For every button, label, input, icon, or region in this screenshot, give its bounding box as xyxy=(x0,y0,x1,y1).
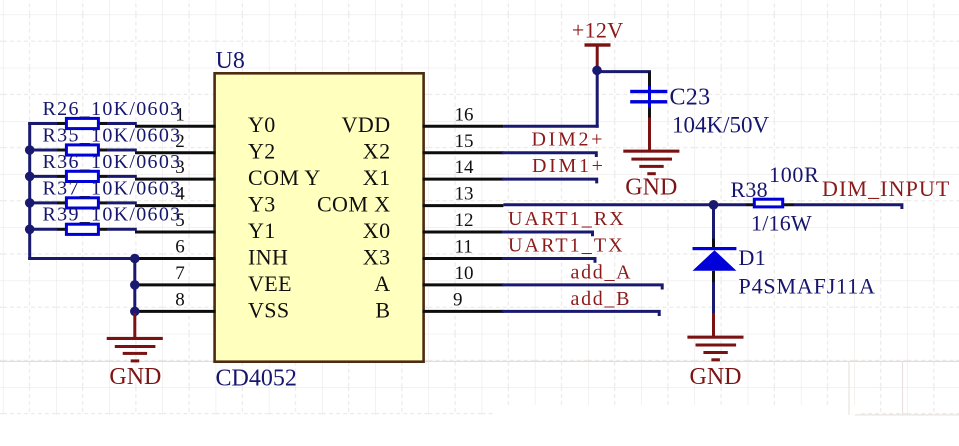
net label DIM_INPUT xyxy=(822,176,950,201)
svg-text:add_B: add_B xyxy=(571,288,632,310)
wire row3 left xyxy=(28,175,137,178)
net label DIM1+ xyxy=(532,155,606,177)
svg-text:B: B xyxy=(375,297,390,322)
svg-text:R36_10K/0603: R36_10K/0603 xyxy=(43,151,182,173)
svg-text:INH: INH xyxy=(248,245,288,270)
pin 10 wire xyxy=(423,283,504,286)
pin 11 wire xyxy=(423,257,504,260)
ground GND D1 stem xyxy=(712,313,715,336)
pin 7 wire xyxy=(135,283,216,286)
IC U8 designator U8 xyxy=(216,48,245,74)
wire vertical to ground left xyxy=(133,259,136,312)
diode D1 triangle xyxy=(693,250,737,271)
svg-text:D1: D1 xyxy=(739,245,767,270)
net label UART1_TX xyxy=(508,235,625,257)
IC U8 body xyxy=(215,73,424,361)
wire row6 bus horizontal xyxy=(28,257,136,260)
net label UART1_RX xyxy=(508,208,626,230)
resistor R39 xyxy=(66,224,98,234)
svg-text:R39_10K/0603: R39_10K/0603 xyxy=(43,204,182,226)
resistor R26 xyxy=(66,118,98,128)
svg-text:8: 8 xyxy=(175,290,185,311)
pin numbers right 16-9 xyxy=(453,104,474,310)
svg-text:VEE: VEE xyxy=(248,271,292,296)
resistor R26 label xyxy=(43,98,182,120)
net label add_B xyxy=(571,288,632,310)
IC U8 value CD4052 xyxy=(216,365,297,391)
svg-text:add_A: add_A xyxy=(571,262,633,284)
svg-text:9: 9 xyxy=(453,290,463,311)
svg-text:VDD: VDD xyxy=(342,112,391,137)
svg-text:Y2: Y2 xyxy=(248,139,276,164)
pin 4 wire xyxy=(135,204,216,207)
junction dot +12V xyxy=(592,66,602,76)
wire junction to D1 xyxy=(712,206,715,248)
resistor R38 xyxy=(754,199,782,207)
wire add_B xyxy=(502,311,661,316)
pin 12 wire xyxy=(423,231,504,234)
wire left bus vertical xyxy=(28,122,31,260)
ground GND C23 bars xyxy=(623,150,679,176)
svg-text:+12V: +12V xyxy=(572,18,624,43)
svg-text:14: 14 xyxy=(455,157,475,178)
pin 1 wire xyxy=(135,125,216,128)
svg-text:12: 12 xyxy=(455,210,474,231)
capacitor C23 designator xyxy=(670,85,711,111)
pin 15 wire xyxy=(423,151,504,154)
svg-text:13: 13 xyxy=(455,184,474,205)
svg-text:COM Y: COM Y xyxy=(248,165,321,190)
svg-text:6: 6 xyxy=(175,237,185,258)
resistor R38 designator xyxy=(731,177,768,202)
resistor R38 value 1/16W xyxy=(751,211,812,236)
svg-text:COM X: COM X xyxy=(317,192,391,217)
pin 3 wire xyxy=(135,178,216,181)
diode D1 designator xyxy=(739,245,767,270)
svg-text:100R: 100R xyxy=(769,162,819,187)
pin 14 wire xyxy=(423,178,504,181)
svg-text:11: 11 xyxy=(455,237,473,258)
wire UART1_TX xyxy=(502,259,597,263)
svg-text:X3: X3 xyxy=(363,245,391,270)
pin 9 wire xyxy=(423,310,504,313)
svg-text:VSS: VSS xyxy=(248,297,290,322)
pin 13 wire xyxy=(423,204,504,207)
pin names left xyxy=(248,112,321,322)
net label add_A xyxy=(571,262,633,284)
ground GND D1 text xyxy=(690,364,742,390)
wire row2 left xyxy=(28,149,137,152)
wire +12V down to pin16 xyxy=(596,68,599,128)
pin 16 wire xyxy=(423,125,504,128)
resistor R35 label xyxy=(43,124,182,146)
resistor R36 xyxy=(66,171,98,181)
svg-text:UART1_TX: UART1_TX xyxy=(508,235,625,257)
wire R38 to DIM_INPUT xyxy=(794,205,903,209)
svg-text:UART1_RX: UART1_RX xyxy=(508,208,626,230)
svg-text:A: A xyxy=(374,271,390,296)
resistor R35 xyxy=(66,145,98,155)
svg-text:R26_10K/0603: R26_10K/0603 xyxy=(43,98,182,120)
svg-text:X2: X2 xyxy=(363,139,391,164)
net label DIM2+ xyxy=(532,128,606,150)
svg-text:C23: C23 xyxy=(670,85,711,111)
pin numbers left 1-8 xyxy=(175,104,185,310)
svg-text:Y0: Y0 xyxy=(248,112,276,137)
svg-text:R38: R38 xyxy=(731,177,768,202)
svg-text:104K/50V: 104K/50V xyxy=(672,112,770,137)
svg-text:15: 15 xyxy=(455,131,474,152)
svg-text:10: 10 xyxy=(455,263,474,284)
wire UART1_RX xyxy=(502,232,594,236)
svg-text:GND: GND xyxy=(625,175,677,201)
pin 2 wire xyxy=(135,151,216,154)
resistor R39 label xyxy=(43,204,182,226)
svg-text:7: 7 xyxy=(175,263,185,284)
diode D1 cathode bar xyxy=(693,247,737,250)
junction dots left bus xyxy=(25,145,35,234)
power +12V symbol xyxy=(585,43,611,66)
svg-text:X1: X1 xyxy=(363,165,391,190)
svg-text:Y1: Y1 xyxy=(248,218,276,243)
svg-text:R35_10K/0603: R35_10K/0603 xyxy=(43,124,182,146)
svg-text:R37_10K/0603: R37_10K/0603 xyxy=(43,177,182,199)
capacitor C23 value xyxy=(672,112,770,137)
svg-text:GND: GND xyxy=(109,364,161,390)
svg-text:X0: X0 xyxy=(363,218,391,243)
svg-text:16: 16 xyxy=(455,104,474,125)
svg-text:DIM1+: DIM1+ xyxy=(532,155,606,177)
pin 8 wire xyxy=(135,310,216,313)
svg-text:Y3: Y3 xyxy=(248,192,276,217)
ground GND C23 text xyxy=(625,175,677,201)
ground GND D1 bars xyxy=(687,336,743,362)
capacitor C23 bottom stub xyxy=(648,108,651,150)
wire row4 left xyxy=(28,201,137,204)
svg-text:DIM_INPUT: DIM_INPUT xyxy=(822,176,950,201)
wire row1 left xyxy=(28,122,137,125)
resistor R36 label xyxy=(43,151,182,173)
resistor R38 value 100R xyxy=(769,162,819,187)
diode D1 bottom stub xyxy=(712,271,715,282)
wire +12V to C23 xyxy=(597,70,651,73)
wire D1 to ground xyxy=(712,282,715,313)
junction dots pins 6 7 8 xyxy=(130,254,140,317)
svg-text:P4SMAFJ11A: P4SMAFJ11A xyxy=(739,273,876,298)
wire R38 stubs xyxy=(746,203,794,206)
svg-text:DIM2+: DIM2+ xyxy=(532,128,606,150)
capacitor C23 plates xyxy=(630,90,667,104)
svg-text:U8: U8 xyxy=(216,48,245,74)
capacitor C23 top stub xyxy=(648,72,651,109)
wire pin13 to junction xyxy=(503,203,746,206)
ground GND left text xyxy=(109,364,161,390)
svg-text:CD4052: CD4052 xyxy=(216,365,297,391)
wire add_A xyxy=(502,285,664,290)
pin 6 wire xyxy=(135,257,216,260)
ground GND left stem xyxy=(133,313,136,337)
svg-text:1/16W: 1/16W xyxy=(751,211,812,236)
resistor R37 xyxy=(66,198,98,208)
wire DIM1+ xyxy=(502,179,598,183)
resistor R37 label xyxy=(43,177,182,199)
junction dot pin13 xyxy=(709,200,719,210)
pin names right xyxy=(317,112,391,322)
wire pin16 to riser xyxy=(503,125,598,128)
diode D1 value P4SMAFJ11A xyxy=(739,273,876,298)
wire row5 left xyxy=(28,228,137,231)
power +12V text xyxy=(572,18,624,43)
svg-text:GND: GND xyxy=(690,364,742,390)
wire DIM2+ xyxy=(502,153,598,157)
pin 5 wire xyxy=(135,231,216,234)
ground GND left bars xyxy=(107,337,163,363)
